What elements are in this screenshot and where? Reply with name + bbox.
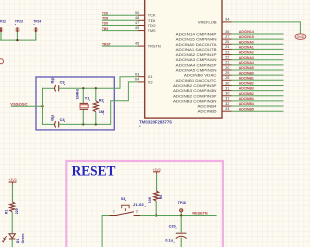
wire / net label ADCINA0 — [232, 43, 284, 45]
pin ADCINB3 COMPIN3N 31 — [222, 100, 232, 102]
wire / net label ADCIN15 — [232, 38, 284, 40]
pin VREFLOB 34 — [222, 21, 232, 23]
svg-text:S3: S3 — [121, 197, 126, 201]
svg-text:10K: 10K — [148, 196, 152, 203]
svg-text:21: 21 — [225, 61, 229, 65]
svg-text:GND: GND — [297, 35, 305, 39]
svg-text:63: 63 — [135, 72, 139, 76]
junction crystal top — [82, 87, 84, 89]
svg-text:0.1u: 0.1u — [165, 238, 173, 242]
wire TMS — [102, 30, 138, 32]
svg-text:26: 26 — [225, 30, 229, 34]
wire / net label ADCINA1 — [232, 48, 284, 50]
crystal Y1 10MHz — [82, 88, 84, 103]
wire / net label ADCINA5 — [232, 69, 284, 71]
svg-text:1M: 1M — [99, 109, 104, 114]
wire X1 net: C3 to crystal/resistor and IC — [59, 77, 138, 89]
svg-text:10MHz: 10MHz — [76, 89, 80, 100]
wire — [156, 174, 158, 191]
pin X2 64 — [138, 81, 145, 83]
pin ADCINA5 CMPIN2N 20 — [222, 69, 232, 71]
wire to C20 — [180, 216, 182, 233]
wire VSSOSC — [11, 105, 43, 107]
svg-text:8p: 8p — [51, 114, 55, 121]
LED D1 Green — [9, 234, 16, 239]
pin ADCINA4 CMPIN2P 21 — [222, 64, 232, 66]
svg-text:ADCINB3: ADCINB3 — [239, 87, 254, 91]
resistor R6 10K — [154, 191, 159, 201]
svg-text:C20: C20 — [169, 224, 176, 228]
wire / net label ADCINB2 — [232, 84, 284, 86]
svg-text:ADCINA4: ADCINA4 — [239, 61, 254, 65]
svg-text:33: 33 — [225, 107, 229, 111]
svg-text:32: 32 — [225, 102, 229, 106]
svg-text:24: 24 — [225, 45, 229, 49]
svg-text:D1: D1 — [16, 239, 20, 244]
svg-text:ADCINB0: ADCINB0 — [239, 71, 254, 75]
pin ADCINA3 CMPIN1N 22 — [222, 59, 232, 61]
svg-text:TMS: TMS — [148, 28, 156, 33]
wire TDO — [102, 25, 138, 27]
svg-text:RESET: RESET — [72, 163, 116, 180]
junction TP23 — [16, 39, 18, 41]
svg-text:31: 31 — [225, 97, 229, 101]
pin ADCINB3 COMPIN3N 31 — [222, 90, 232, 92]
junction crystal bottom — [82, 123, 84, 125]
svg-text:31: 31 — [225, 86, 229, 90]
svg-text:29: 29 — [225, 71, 229, 75]
wire X2 net: C4 to crystal/resistor and IC — [59, 82, 138, 125]
junction resistor top — [95, 87, 97, 89]
svg-text:30: 30 — [225, 81, 229, 85]
pin TDO 47 — [138, 25, 145, 27]
pin ADCINB2 COMPIN3P 30 — [222, 95, 232, 97]
junction C20 top — [180, 214, 182, 216]
svg-text:ADCINB5: ADCINB5 — [239, 107, 254, 111]
wire / net label ADCINB3 — [232, 100, 284, 102]
junction R6 bottom — [155, 214, 157, 216]
resistor R2 1M — [95, 88, 97, 101]
svg-text:ADCIN15: ADCIN15 — [239, 35, 254, 39]
wire bottom to C4 — [43, 123, 56, 125]
junction VSSOSC — [41, 105, 43, 107]
svg-text:49: 49 — [135, 26, 139, 30]
svg-text:J1-02: J1-02 — [133, 203, 144, 207]
wire / net label ADCINB4 — [232, 105, 284, 107]
wire — [180, 237, 182, 247]
crystal oscillator section box — [36, 77, 114, 130]
op IC U1 TMS320F28377S body — [145, 0, 222, 118]
svg-text:ADCINA2: ADCINA2 — [239, 51, 254, 55]
svg-text:TP22: TP22 — [0, 19, 6, 23]
svg-text:2: 2 — [136, 209, 138, 213]
wire / net label ADCINB5 — [232, 110, 284, 112]
RESET section box — [66, 161, 223, 247]
svg-text:TRSTN: TRSTN — [148, 44, 161, 49]
svg-text:VREFLOB: VREFLOB — [198, 19, 217, 24]
svg-text:ADCINB2: ADCINB2 — [239, 92, 254, 96]
wire / net label ADCINB1 — [232, 79, 284, 81]
svg-text:TMS320F28377S: TMS320F28377S — [139, 120, 172, 125]
svg-text:ADCINB5: ADCINB5 — [197, 109, 217, 114]
wire — [155, 201, 157, 215]
svg-text:48: 48 — [135, 16, 139, 20]
wire / net label ADCINB0 — [232, 74, 284, 76]
svg-text:Green: Green — [21, 234, 25, 244]
pin ADCINB5 33 — [222, 110, 232, 112]
power port (cut) at left edge — [0, 59, 4, 64]
svg-text:25: 25 — [225, 40, 229, 44]
svg-text:RESETN: RESETN — [192, 212, 208, 216]
svg-text:22: 22 — [225, 56, 229, 60]
svg-text:50: 50 — [135, 11, 139, 15]
junction resistor bottom — [95, 123, 97, 125]
svg-text:28: 28 — [225, 76, 229, 80]
svg-text:R6: R6 — [159, 195, 163, 200]
wire top to C3 — [43, 87, 56, 89]
pin ADCINA2 CMPIN1P 23 — [222, 54, 232, 56]
wire / net label ADCIN14 — [232, 33, 284, 35]
capacitor C4 — [55, 121, 56, 127]
svg-text:220: 220 — [15, 208, 19, 214]
wire TRST — [102, 45, 138, 47]
resistor R1 220 — [10, 202, 15, 212]
wire / net label ADCINA4 — [232, 64, 284, 66]
svg-text:45: 45 — [135, 42, 139, 46]
svg-text:ADCIN14: ADCIN14 — [239, 30, 254, 34]
svg-text:TP24: TP24 — [33, 19, 42, 23]
pin ADCINB1 DACOUTC 28 — [222, 79, 232, 81]
svg-text:TP23: TP23 — [15, 19, 23, 23]
svg-text:27: 27 — [225, 35, 229, 39]
svg-text:C4: C4 — [60, 117, 66, 122]
svg-text:ADCINA3: ADCINA3 — [239, 56, 254, 60]
pin TCK 50 — [138, 14, 145, 16]
svg-text:+3V3: +3V3 — [8, 178, 16, 182]
pin ADCINB0 VDAC 29 — [222, 74, 232, 76]
pin ADCINA0 DACOUTA 25 — [222, 43, 232, 45]
svg-text:ADCINB4: ADCINB4 — [239, 102, 254, 106]
svg-text:64: 64 — [135, 78, 139, 82]
wire — [11, 239, 13, 247]
wire — [11, 185, 13, 202]
wire reset rail down-left — [102, 216, 109, 247]
svg-text:47: 47 — [135, 21, 139, 25]
wire / net label ADCINB2 — [232, 95, 284, 97]
pin TRSTN 45 — [138, 45, 145, 47]
pin TDI 48 — [138, 19, 145, 21]
svg-text:R1: R1 — [4, 210, 8, 215]
svg-text:ADCINB1: ADCINB1 — [239, 76, 254, 80]
wire TCK — [102, 14, 138, 16]
wire / net label ADCINB3 — [232, 90, 284, 92]
ground GND power port — [295, 34, 306, 40]
wire — [11, 212, 13, 234]
svg-text:20: 20 — [225, 66, 229, 70]
wire TDI — [102, 19, 138, 21]
pin ADCIN15 CMPIN4N 27 — [222, 38, 232, 40]
pin TMS 49 — [138, 30, 145, 32]
svg-text:23: 23 — [225, 50, 229, 54]
wire test point bus — [0, 39, 36, 40]
switch S3 — [109, 215, 117, 217]
wire VREFLOB to GND — [232, 22, 301, 34]
svg-text:34: 34 — [225, 17, 229, 21]
capacitor C3 — [55, 85, 56, 91]
svg-text:30: 30 — [225, 92, 229, 96]
svg-text:Y1: Y1 — [85, 95, 91, 100]
svg-text:R2: R2 — [99, 97, 105, 102]
svg-text:ADCINA5: ADCINA5 — [239, 66, 254, 70]
wire left vertical C3-C4 — [42, 88, 44, 125]
pin ADCINB4 32 — [222, 105, 232, 107]
svg-text:1: 1 — [113, 209, 115, 213]
svg-text:C3: C3 — [60, 80, 66, 85]
svg-text:ADCINB2: ADCINB2 — [239, 82, 254, 86]
pin ADCINA1 DACOUTB 24 — [222, 48, 232, 50]
svg-text:TP18: TP18 — [178, 201, 186, 205]
pin ADCIN14 CMPIN4P 26 — [222, 33, 232, 35]
wire reset net — [140, 215, 216, 217]
pin ADCINB2 COMPIN3P 30 — [222, 84, 232, 86]
svg-text:X2: X2 — [148, 79, 154, 84]
svg-text:ADCINB3: ADCINB3 — [239, 97, 254, 101]
wire / net label ADCINA2 — [232, 54, 284, 56]
svg-text:ADCINA1: ADCINA1 — [239, 46, 254, 50]
svg-text:8p: 8p — [51, 76, 55, 83]
svg-text:ADCINA0: ADCINA0 — [239, 40, 254, 44]
pin X1 63 — [138, 76, 145, 78]
wire / net label ADCINA3 — [232, 59, 284, 61]
